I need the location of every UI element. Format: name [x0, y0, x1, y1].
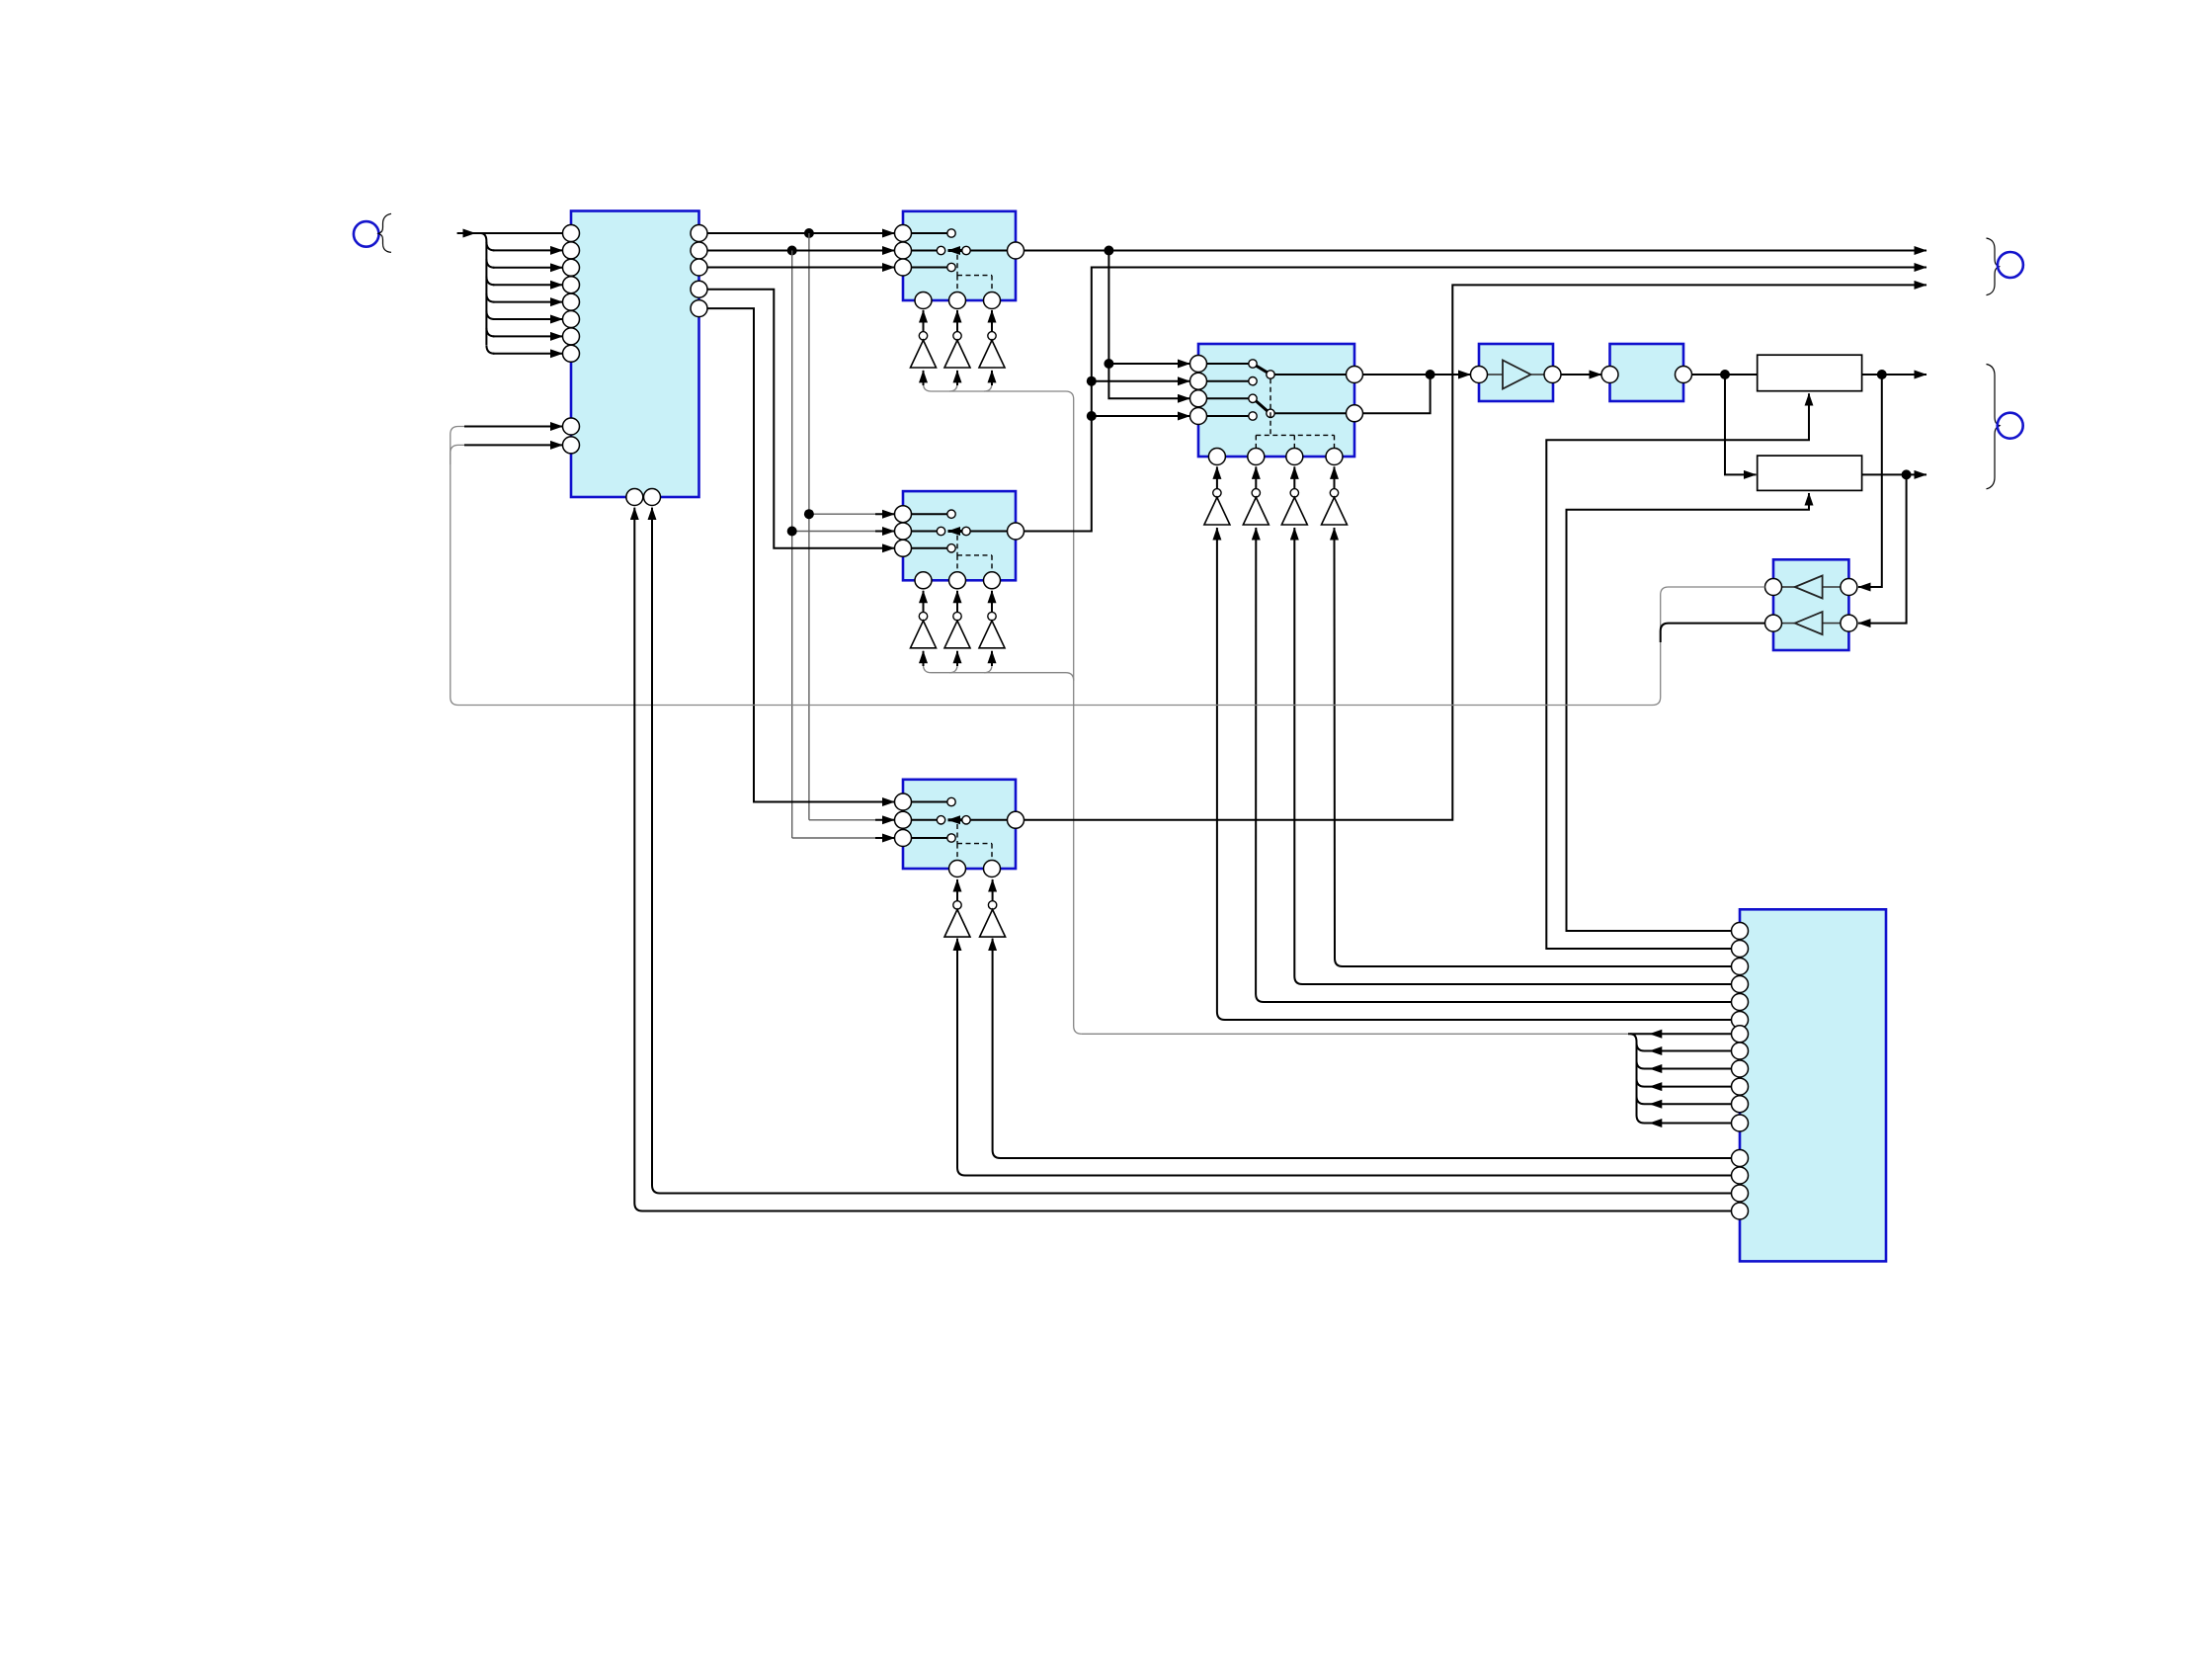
output connector J3	[1987, 365, 2023, 489]
wire IC2 pin16 to IC1 bottom pin1	[634, 508, 1731, 1211]
junction riser A2	[1087, 411, 1097, 421]
IC U1 left pins	[563, 225, 580, 454]
SW2 dashed control	[957, 536, 992, 572]
wire SW3 buffer feeds from IC2	[957, 939, 1732, 1176]
wire input fanout to IC1	[457, 233, 563, 354]
IC U5 pins	[1732, 923, 1749, 1220]
wire SW1 output to connector (line A)	[1024, 250, 1927, 252]
junction SW1 out	[1104, 246, 1113, 256]
wire F1 control from IC2 pin2	[1546, 393, 1809, 949]
junction F1 out	[1877, 370, 1887, 379]
junction L2	[787, 246, 797, 256]
SW4 internals	[1207, 360, 1347, 420]
SW1 dashed control	[957, 255, 992, 292]
SW3 pins	[895, 793, 1024, 877]
input connector J1	[354, 213, 391, 252]
SW3 internals	[912, 797, 1008, 842]
filter F1	[1758, 355, 1862, 391]
SW4 dashed control	[1256, 378, 1334, 448]
wire L1 branch down (to SW2 pin1, SW3 pin2)	[809, 233, 895, 820]
buffer block U4	[1765, 559, 1857, 650]
wire SW4 outputs join	[1363, 375, 1471, 413]
analog switch SW4	[1198, 344, 1354, 457]
SW1 pins	[895, 225, 1024, 309]
IC U5 block	[1740, 909, 1886, 1261]
wire L1 IC1 out1 to SW1	[707, 232, 895, 234]
SW3 control buffers B3a B3b	[944, 879, 1006, 937]
junction F2 out	[1902, 469, 1912, 479]
SW1 control buffers B1a B1b B1c	[911, 310, 1006, 368]
wire U3 to F1 and branch to F2	[1692, 375, 1758, 474]
SW2 control buffers B2a B2b B2c	[911, 591, 1006, 648]
wire F2 output	[1862, 473, 1926, 475]
SW4 pins	[1190, 356, 1363, 465]
junction L2-SW2	[787, 527, 797, 537]
wire L3 IC1 out3 to SW1 pin3	[707, 267, 895, 269]
wire L4 IC1 out4 to SW2 pin3	[707, 290, 895, 548]
junction riser B	[1104, 359, 1113, 369]
wire F1 output	[1862, 374, 1926, 376]
wire control feed to SW1 buffers	[924, 371, 1082, 1034]
IC U1 main block	[571, 211, 699, 498]
wire L2 branch down (to SW2 pin2, SW3 pin3)	[792, 251, 895, 839]
output connector J2	[1987, 238, 2023, 295]
wire U2 to U3	[1561, 374, 1601, 376]
amplifier U2	[1471, 344, 1562, 401]
SW4 control buffers B4a-B4d	[1204, 466, 1348, 525]
analog switch SW1	[903, 211, 1016, 300]
wire IC2 control bus to switch buffers	[1082, 1030, 1732, 1127]
wire SW3 output riser to connector (line C)	[1024, 285, 1927, 819]
wire F1 out to buffer U4 input	[1858, 375, 1882, 587]
junction L1	[804, 228, 814, 238]
SW1 internals	[912, 229, 1008, 272]
block U3	[1601, 344, 1692, 401]
wire F2 control from IC2 pin1	[1567, 493, 1810, 931]
junction SW4 out	[1426, 370, 1435, 379]
filter F2	[1758, 456, 1862, 490]
junction riser A1	[1087, 376, 1097, 386]
wire L5 IC1 out5 to SW3 pin1	[707, 308, 895, 801]
SW2 internals	[912, 510, 1008, 552]
IC U1 right pins	[691, 225, 707, 317]
IC U1 bottom pins	[626, 489, 661, 506]
junction L1-SW2	[804, 509, 814, 519]
SW3 dashed control	[957, 824, 992, 861]
wire F2 out to buffer U4 input	[1858, 474, 1907, 623]
SW2 pins	[895, 506, 1024, 589]
wire feedback U4 outputs to IC1 inputs	[451, 427, 1765, 706]
wire riser B to SW4 pins 1,3	[1108, 251, 1189, 399]
wire control feed to SW2 buffers	[924, 651, 1074, 681]
wire SW2 output riser to connector (line B) and SW4 pins 2,4	[1024, 268, 1927, 532]
analog switch SW3	[903, 780, 1016, 869]
wire SW4 buffer feeds from IC2	[1217, 528, 1732, 1020]
wire L2 IC1 out2 to SW1 pin2	[707, 250, 895, 252]
junction U3 out	[1720, 370, 1730, 379]
wire IC2 pin15 to IC1 bottom pin2	[652, 508, 1732, 1194]
analog switch SW2	[903, 491, 1016, 580]
